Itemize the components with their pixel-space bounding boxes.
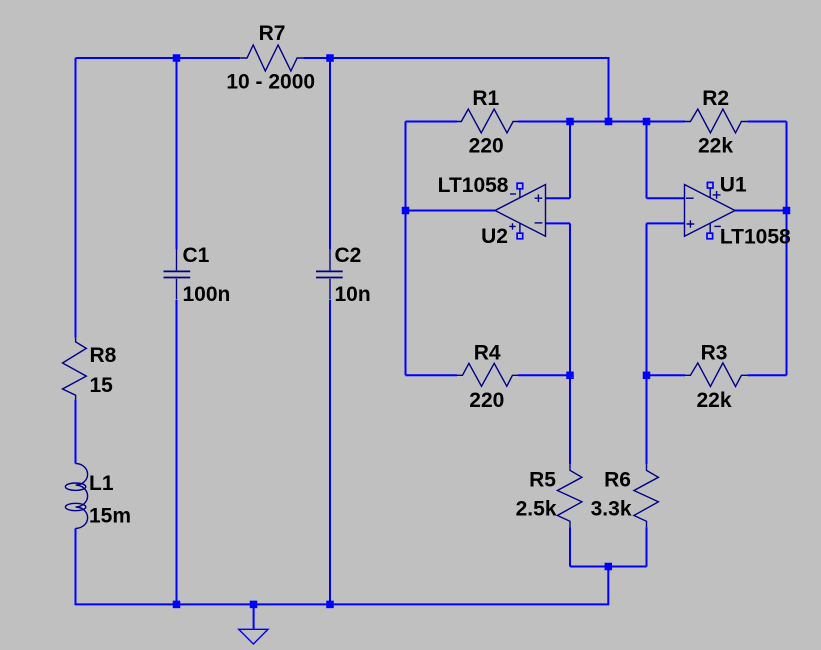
svg-text:R3: R3: [701, 341, 728, 364]
svg-text:15m: 15m: [89, 504, 131, 527]
svg-text:100n: 100n: [183, 283, 231, 306]
svg-text:U2: U2: [481, 225, 508, 248]
svg-text:R8: R8: [90, 344, 117, 367]
svg-text:2.5k: 2.5k: [516, 498, 557, 521]
svg-text:R7: R7: [259, 22, 286, 45]
svg-text:R5: R5: [529, 469, 556, 492]
svg-text:C2: C2: [335, 244, 362, 267]
svg-text:LT1058: LT1058: [720, 225, 791, 248]
svg-text:R4: R4: [474, 341, 501, 364]
svg-text:22k: 22k: [698, 135, 733, 158]
svg-text:10 - 2000: 10 - 2000: [226, 71, 315, 94]
svg-text:R6: R6: [604, 469, 631, 492]
svg-text:LT1058: LT1058: [438, 174, 509, 197]
svg-text:R1: R1: [472, 87, 499, 110]
svg-text:15: 15: [90, 374, 114, 397]
svg-text:3.3k: 3.3k: [591, 498, 632, 521]
svg-text:R2: R2: [702, 87, 729, 110]
svg-text:U1: U1: [720, 174, 747, 197]
svg-text:L1: L1: [89, 472, 114, 495]
svg-text:10n: 10n: [335, 283, 371, 306]
svg-text:22k: 22k: [696, 389, 731, 412]
svg-text:220: 220: [469, 389, 504, 412]
svg-text:220: 220: [469, 134, 504, 157]
svg-text:C1: C1: [183, 244, 210, 267]
